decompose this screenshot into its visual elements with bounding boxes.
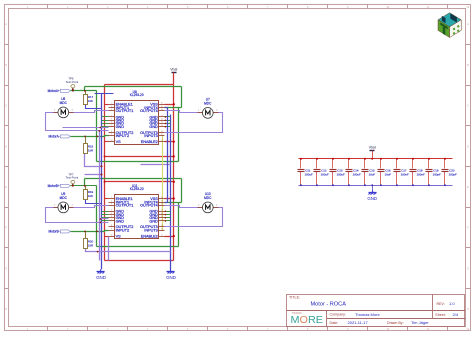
svg-text:100nF: 100nF xyxy=(401,172,409,176)
svg-text:10: 10 xyxy=(111,140,113,142)
svg-text:3: 3 xyxy=(111,203,112,205)
svg-text:9: 9 xyxy=(111,134,112,136)
svg-text:MORE: MORE xyxy=(291,315,324,326)
svg-text:5: 5 xyxy=(111,213,112,215)
svg-text:5: 5 xyxy=(111,119,112,121)
svg-text:7: 7 xyxy=(111,219,112,221)
svg-text:16: 16 xyxy=(161,213,163,215)
svg-text:Date:: Date: xyxy=(330,321,339,325)
svg-text:TITLE:: TITLE: xyxy=(289,296,300,300)
svg-text:Drawn By:: Drawn By: xyxy=(387,321,404,325)
svg-text:18: 18 xyxy=(161,109,163,111)
svg-text:G: G xyxy=(467,267,469,270)
svg-text:14: 14 xyxy=(161,219,163,221)
svg-text:H: H xyxy=(467,308,469,311)
svg-text:Thomas More: Thomas More xyxy=(355,312,380,317)
svg-text:12: 12 xyxy=(161,134,163,136)
svg-text:MotorB-: MotorB- xyxy=(48,230,59,234)
svg-text:100uF: 100uF xyxy=(321,172,329,176)
svg-text:REV:: REV: xyxy=(437,302,445,306)
svg-text:100pF: 100pF xyxy=(433,172,441,176)
svg-text:GND: GND xyxy=(116,125,125,129)
svg-text:INPUT2: INPUT2 xyxy=(116,229,130,233)
svg-text:H: H xyxy=(5,308,7,311)
svg-text:11: 11 xyxy=(161,140,163,142)
svg-text:Vbat: Vbat xyxy=(369,146,376,150)
svg-text:2: 2 xyxy=(111,106,112,108)
svg-text:7: 7 xyxy=(111,125,112,127)
svg-text:INPUT3: INPUT3 xyxy=(144,229,158,233)
svg-text:MotorA-: MotorA- xyxy=(48,135,59,139)
svg-text:MotorA+: MotorA+ xyxy=(48,89,60,93)
svg-text:4: 4 xyxy=(111,115,112,117)
svg-text:Test Point: Test Point xyxy=(66,80,79,84)
svg-text:G: G xyxy=(5,267,7,270)
svg-text:10R: 10R xyxy=(88,243,94,247)
svg-text:Company:: Company: xyxy=(330,313,346,317)
svg-text:100uF: 100uF xyxy=(337,172,345,176)
svg-text:10: 10 xyxy=(111,234,113,236)
svg-text:100pF: 100pF xyxy=(449,172,457,176)
svg-text:OUTPUT4: OUTPUT4 xyxy=(140,109,158,113)
svg-text:6: 6 xyxy=(111,216,112,218)
svg-text:13: 13 xyxy=(161,131,163,133)
svg-text:C: C xyxy=(5,105,7,108)
svg-text:MDC: MDC xyxy=(60,101,68,105)
svg-text:VS: VS xyxy=(116,234,122,238)
svg-text:1: 1 xyxy=(111,197,112,199)
svg-text:19: 19 xyxy=(161,200,163,202)
svg-text:9: 9 xyxy=(111,229,112,231)
svg-text:14: 14 xyxy=(161,125,163,127)
svg-text:13: 13 xyxy=(161,225,163,227)
svg-text:Sheet:: Sheet: xyxy=(435,313,445,317)
svg-text:MotorB+: MotorB+ xyxy=(48,184,60,188)
svg-text:20: 20 xyxy=(161,103,163,105)
svg-text:Test Point: Test Point xyxy=(66,176,79,180)
svg-text:17: 17 xyxy=(161,210,163,212)
svg-text:15: 15 xyxy=(161,122,163,124)
svg-text:4: 4 xyxy=(111,210,112,212)
svg-text:D: D xyxy=(5,145,7,148)
svg-text:18: 18 xyxy=(161,203,163,205)
svg-text:Tim Jäger: Tim Jäger xyxy=(411,320,429,325)
svg-text:GND: GND xyxy=(166,275,176,280)
svg-text:GND: GND xyxy=(96,275,106,280)
svg-text:ENABLE2: ENABLE2 xyxy=(141,234,158,238)
svg-text:MDC: MDC xyxy=(204,101,212,105)
svg-text:100uF: 100uF xyxy=(353,172,361,176)
svg-text:10uF: 10uF xyxy=(385,172,392,176)
svg-text:3: 3 xyxy=(111,109,112,111)
svg-text:Motor - ROCA: Motor - ROCA xyxy=(311,301,347,307)
svg-text:8: 8 xyxy=(111,131,112,133)
svg-text:10uF: 10uF xyxy=(369,172,376,176)
svg-text:19: 19 xyxy=(161,106,163,108)
svg-text:8: 8 xyxy=(111,225,112,227)
svg-text:C: C xyxy=(467,105,469,108)
svg-text:INPUT3: INPUT3 xyxy=(144,134,158,138)
svg-text:2/4: 2/4 xyxy=(453,312,459,317)
svg-text:15: 15 xyxy=(161,216,163,218)
svg-text:KL293-20: KL293-20 xyxy=(130,93,144,97)
svg-text:GND: GND xyxy=(149,125,158,129)
svg-text:10K: 10K xyxy=(88,194,93,198)
svg-text:10R: 10R xyxy=(88,148,94,152)
svg-text:100nF: 100nF xyxy=(417,172,425,176)
svg-text:17: 17 xyxy=(161,115,163,117)
svg-text:OUTPUT1: OUTPUT1 xyxy=(116,109,134,113)
svg-text:2: 2 xyxy=(111,200,112,202)
svg-text:6: 6 xyxy=(111,122,112,124)
svg-text:OUTPUT1: OUTPUT1 xyxy=(116,203,134,207)
svg-text:12: 12 xyxy=(161,229,163,231)
svg-text:1: 1 xyxy=(111,103,112,105)
svg-text:2021-11-17: 2021-11-17 xyxy=(348,320,369,325)
svg-text:10K: 10K xyxy=(88,99,93,103)
svg-text:MDC: MDC xyxy=(204,196,212,200)
svg-text:KL293-20: KL293-20 xyxy=(130,187,144,191)
svg-text:Vbat: Vbat xyxy=(170,67,177,71)
svg-text:GND: GND xyxy=(149,219,158,223)
svg-text:11: 11 xyxy=(161,234,163,236)
svg-text:OUTPUT4: OUTPUT4 xyxy=(140,203,158,207)
svg-text:1.0: 1.0 xyxy=(449,301,455,306)
svg-text:GND: GND xyxy=(367,196,377,201)
svg-text:100uF: 100uF xyxy=(305,172,313,176)
svg-text:20: 20 xyxy=(161,197,163,199)
svg-text:D: D xyxy=(467,145,469,148)
svg-text:VS: VS xyxy=(116,140,122,144)
svg-text:GND: GND xyxy=(116,219,125,223)
svg-text:ENABLE2: ENABLE2 xyxy=(141,140,158,144)
svg-text:MDC: MDC xyxy=(60,196,68,200)
svg-text:16: 16 xyxy=(161,119,163,121)
svg-text:INPUT2: INPUT2 xyxy=(116,134,130,138)
